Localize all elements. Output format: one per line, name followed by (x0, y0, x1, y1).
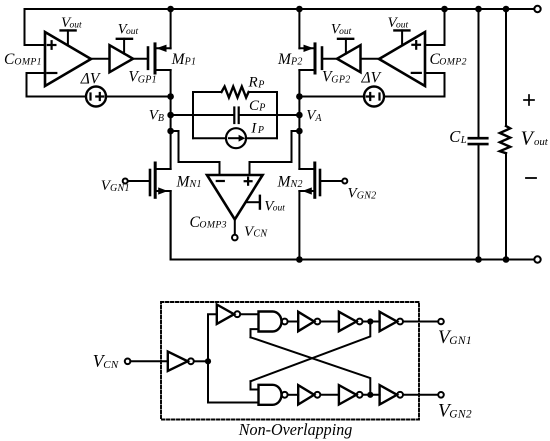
wire parallel box left edge (192, 92, 194, 138)
dashed box non-overlapping (161, 302, 419, 420)
wire G7 to VGN2 terminal (403, 394, 438, 396)
label VGN2 block output (438, 401, 472, 422)
label MN1 (176, 173, 202, 190)
svg-text:B: B (158, 113, 164, 124)
wire G0 to junction (194, 360, 208, 362)
node VGN1 gate terminal (123, 179, 128, 184)
label CL (449, 127, 467, 146)
node VGN2 output terminal (438, 392, 444, 398)
label CP (249, 98, 265, 114)
power Vout supply of COMP3 (247, 196, 260, 209)
power Vout supply of COMP2 (394, 30, 409, 45)
wire NAND2 second input stub (251, 381, 259, 389)
wire MP1 source to top rail (170, 9, 172, 48)
svg-text:GN2: GN2 (357, 190, 377, 201)
inverter G1 (217, 305, 240, 324)
wire MN2 source to bottom rail (298, 191, 300, 260)
wire VGN2 terminal to MN2 gate (320, 180, 342, 182)
label plus polarity Vout (524, 95, 534, 105)
svg-text:A: A (314, 113, 322, 124)
node VGN1 output terminal (438, 319, 444, 325)
gate NAND2 (259, 385, 288, 405)
svg-text:out: out (126, 27, 139, 37)
wire buffer A1 output to MP1 gate (133, 58, 148, 60)
gate NAND1 (259, 312, 288, 332)
wire COMP2 plus input to top rail (425, 9, 445, 45)
op-amp U3 COMP3 (207, 175, 263, 219)
label COMP1 (4, 51, 42, 68)
inverter G3 (339, 312, 363, 331)
node VA junction dots (296, 93, 303, 134)
wire COMP1 output (91, 58, 110, 60)
source V2 deltaV right (364, 87, 384, 107)
inverter G2 (298, 312, 320, 331)
node top-right output terminal (534, 6, 540, 12)
node junction bottom row (367, 392, 373, 398)
wire source V1 to node VB (106, 96, 171, 98)
svg-text:N2: N2 (290, 179, 303, 190)
op-amp U2 COMP2 (379, 32, 425, 86)
label MN2 (277, 173, 303, 190)
inverter G7 (380, 385, 403, 404)
buffer A2 (337, 45, 361, 72)
wire NAND2 to G5 (288, 394, 298, 396)
power Vout supply of COMP1 (61, 30, 76, 45)
power Vout supply of buffer A2 (338, 39, 353, 54)
svg-text:GN2: GN2 (449, 409, 472, 421)
wire G4 to VGN1 terminal (403, 321, 438, 323)
wire VGN1 terminal to MN1 gate (128, 180, 150, 182)
svg-text:OMP1: OMP1 (14, 57, 42, 68)
label VGP1 (128, 69, 157, 86)
svg-text:P: P (257, 79, 264, 90)
node junction top rail at COMP2 (441, 6, 448, 13)
wire COMP1 plus input to top rail (25, 9, 46, 45)
svg-text:GN1: GN1 (110, 183, 130, 194)
wire buffer A2 output to MP2 gate (322, 58, 337, 60)
label MP2 (277, 51, 303, 68)
svg-text:GN1: GN1 (449, 335, 472, 347)
op-amp U1 COMP1 (45, 32, 91, 86)
label VCN block input (93, 351, 119, 371)
svg-text:ΔV: ΔV (80, 70, 101, 87)
capacitor CP (171, 108, 300, 124)
node junctions CL (475, 6, 482, 263)
wire COMP2 output (361, 58, 380, 60)
wire G3 to G4 (363, 321, 380, 323)
label Vout supply COMP2 (388, 15, 409, 31)
wire MP2 drain to node VA (298, 70, 300, 97)
svg-text:C: C (4, 51, 15, 68)
wire MP1 drain to node VB (170, 70, 172, 97)
svg-text:GP2: GP2 (331, 74, 350, 85)
wire COMP2 minus input loop to source V2 (384, 73, 445, 97)
wire G2 to G3 (321, 321, 339, 323)
svg-text:P2: P2 (290, 57, 303, 68)
node junction bottom rail at MN2 (296, 256, 303, 263)
transistor MP2 (299, 44, 322, 73)
svg-text:I: I (250, 120, 257, 136)
svg-text:R: R (248, 75, 258, 91)
svg-text:out: out (273, 204, 286, 214)
wire cross coupling bottom to top (251, 322, 371, 382)
node bottom-right output terminal (534, 256, 540, 262)
wire NAND1 second input stub (251, 329, 259, 337)
transistor MN1 (150, 163, 171, 197)
wire junction down to NAND2 input (208, 361, 259, 402)
wire G1 to NAND1 (240, 313, 258, 315)
label VB (149, 108, 164, 125)
label minus polarity Vout (526, 177, 536, 179)
wire VA to COMP3 plus input (250, 131, 300, 175)
capacitor CL (469, 9, 488, 260)
wire COMP3 output to VCN terminal (234, 219, 236, 234)
label Vout supply COMP3 (264, 198, 285, 214)
svg-text:P: P (257, 125, 264, 136)
svg-text:N1: N1 (189, 179, 202, 190)
node junction after G0 (205, 358, 211, 364)
node junctions Rload (503, 6, 510, 263)
source IP current source (193, 128, 277, 148)
node VCN terminal (232, 235, 238, 241)
buffer A1 (110, 45, 134, 72)
node junction top rail at MP1 (167, 6, 174, 13)
svg-text:Non-Overlapping: Non-Overlapping (238, 420, 352, 439)
label Vout supply buffer A1 (118, 22, 139, 38)
transistor MN2 (299, 163, 320, 197)
label Vout load (521, 128, 549, 150)
svg-text:CN: CN (103, 359, 119, 371)
label COMP3 (190, 214, 227, 231)
wire node VB vertical (170, 97, 172, 170)
label VGN2 gate (348, 186, 377, 202)
source V1 deltaV left (86, 87, 106, 107)
svg-text:OMP2: OMP2 (439, 57, 467, 68)
wire NAND1 to G2 (288, 321, 298, 323)
wire node VA vertical (298, 97, 300, 170)
svg-text:M: M (171, 51, 186, 68)
svg-text:out: out (534, 136, 549, 148)
label IP (250, 120, 264, 136)
svg-text:M: M (277, 51, 292, 68)
node VGN2 gate terminal (342, 179, 347, 184)
svg-text:L: L (460, 135, 467, 146)
wire VCN to inverter G0 (130, 360, 167, 362)
node VB junction dots (167, 93, 174, 134)
svg-text:P1: P1 (184, 57, 197, 68)
wire G5 to G6 (321, 394, 339, 396)
svg-text:M: M (277, 173, 292, 190)
wire bottom rail (171, 191, 535, 260)
label VGN1 gate (101, 178, 130, 194)
svg-text:GP1: GP1 (138, 74, 157, 85)
wire VB to COMP3 minus input (171, 131, 220, 175)
label Vout supply buffer A2 (331, 22, 352, 38)
resistor Rload (500, 9, 510, 260)
power Vout supply of buffer A1 (117, 39, 132, 54)
node junction top row (367, 318, 373, 324)
wire top rail (25, 8, 535, 10)
label VGN1 block output (438, 327, 472, 348)
svg-text:out: out (339, 27, 352, 37)
inverter G0 (168, 352, 194, 371)
wire parallel box right edge (276, 92, 278, 138)
label VA (306, 108, 322, 125)
svg-text:M: M (176, 173, 191, 190)
wire G6 to G7 (363, 394, 380, 396)
node VCN input terminal (125, 359, 131, 365)
svg-text:out: out (396, 20, 409, 30)
wire source V2 to node VA (299, 96, 364, 98)
label VCN comparator output (244, 224, 268, 240)
wire junction up to inverter G1 (208, 314, 217, 361)
transistor MP1 (148, 44, 171, 73)
wire COMP1 minus input loop to source V1 (27, 73, 87, 97)
label MP1 (171, 51, 197, 68)
wire cross coupling top to bottom (251, 337, 371, 395)
resistor RP (193, 87, 277, 98)
wire MN1 source to bottom rail (170, 191, 172, 260)
svg-text:OMP3: OMP3 (199, 220, 227, 231)
svg-text:CN: CN (253, 229, 268, 240)
inverter G5 (298, 385, 320, 404)
inverter G4 (380, 312, 403, 331)
svg-text:P: P (258, 103, 265, 114)
svg-text:out: out (70, 20, 83, 30)
inverter G6 (339, 385, 363, 404)
svg-text:C: C (449, 127, 461, 146)
node junction top rail at MP2 (296, 6, 303, 13)
label Vout supply COMP1 (61, 15, 82, 31)
label RP (248, 75, 265, 91)
label COMP2 (430, 51, 467, 68)
wire MP2 source to top rail (298, 9, 300, 48)
label VGP2 (322, 69, 351, 86)
svg-text:ΔV: ΔV (361, 70, 382, 87)
